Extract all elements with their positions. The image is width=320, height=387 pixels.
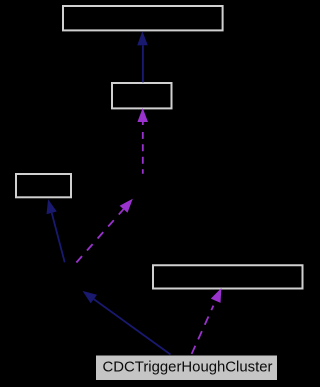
wire solid inheritance arrow E1 (box2 to box1): [137, 31, 148, 82]
node box1 (top base class, label hidden): [63, 6, 223, 30]
wire solid inheritance arrow E4 (hidden junction node to box3): [47, 199, 65, 262]
node CDCTriggerHoughCluster (current class, highlighted): [96, 356, 277, 381]
node box2 (base class, label hidden): [112, 83, 172, 108]
wire dashed template arrow E3 (hidden junction node to hidden label node): [76, 199, 132, 263]
svg-text:CDCTriggerHoughCluster: CDCTriggerHoughCluster: [103, 359, 273, 375]
wire dashed template arrow E2 (hidden label node to box2): [137, 108, 148, 176]
node box4 (right template class, label hidden): [153, 265, 303, 288]
node box3 (left base class, label hidden): [16, 174, 71, 197]
wire dashed template arrow E6 (CDCTriggerHoughCluster to box4): [191, 288, 221, 355]
wire solid inheritance arrow E5 (CDCTriggerHoughCluster to hidden junction node): [83, 291, 171, 355]
